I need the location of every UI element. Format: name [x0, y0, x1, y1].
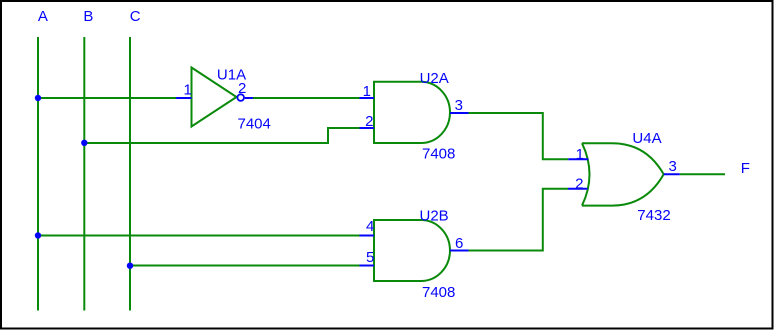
- svg-text:C: C: [130, 8, 141, 25]
- svg-text:U2A: U2A: [420, 70, 449, 87]
- svg-text:7404: 7404: [238, 116, 271, 133]
- svg-text:3: 3: [669, 158, 677, 175]
- svg-text:F: F: [741, 160, 750, 177]
- svg-text:2: 2: [238, 80, 246, 97]
- svg-text:U4A: U4A: [632, 130, 661, 147]
- svg-text:2: 2: [575, 175, 583, 192]
- svg-text:3: 3: [455, 97, 463, 114]
- svg-text:1: 1: [363, 83, 371, 100]
- svg-text:1: 1: [184, 82, 192, 99]
- svg-text:U2B: U2B: [420, 208, 449, 225]
- svg-text:A: A: [38, 8, 48, 25]
- svg-text:2: 2: [365, 113, 373, 130]
- svg-text:1: 1: [576, 146, 584, 163]
- svg-text:6: 6: [455, 235, 463, 252]
- svg-text:4: 4: [366, 218, 374, 235]
- svg-text:7432: 7432: [637, 207, 670, 224]
- svg-text:B: B: [83, 8, 93, 25]
- svg-text:7408: 7408: [422, 146, 455, 163]
- svg-text:5: 5: [366, 249, 374, 266]
- svg-text:7408: 7408: [422, 284, 455, 301]
